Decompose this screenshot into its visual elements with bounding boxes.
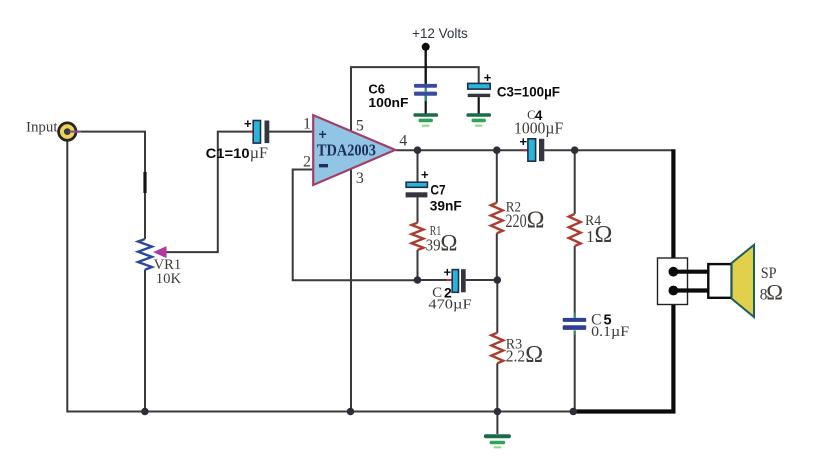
capacitor C6 (414, 84, 437, 101)
wire: C2 right plate to R2/R3 node (466, 279, 498, 281)
svg-text:2: 2 (303, 154, 311, 171)
wire: pin 5 up and top rail to C3 (351, 67, 479, 131)
junction node: output/C7 (414, 146, 422, 154)
wire: C7 branch drop (417, 150, 419, 182)
potentiometer VR1 (138, 239, 152, 270)
wire: thick overlap segment on VR1 line (143, 172, 146, 193)
node: speaker - terminal (669, 286, 679, 296)
resistor R2 (491, 203, 503, 234)
wire: C6 bottom to ground (425, 96, 427, 114)
svg-text:C3=100µF: C3=100µF (497, 83, 561, 99)
svg-text:+: + (444, 265, 452, 280)
wire: C7 to R1 (417, 197, 419, 222)
resistor R4 (569, 214, 581, 246)
svg-text:39nF: 39nF (430, 199, 462, 214)
wire: C5 bottom to ground rail (574, 330, 576, 411)
svg-text:1: 1 (586, 227, 595, 246)
junction node: C2/R2/R3 (494, 276, 502, 284)
wire: R4 branch top (574, 150, 576, 214)
junction node: rail/pin3 (347, 408, 355, 416)
speaker terminal block (658, 258, 688, 305)
svg-text:+12 Volts: +12 Volts (412, 25, 468, 41)
wire: R2 bottom to node (496, 233, 498, 280)
wire: C1 to pin 1 (269, 131, 314, 133)
wire: purple stub right of jack (71, 131, 81, 133)
input jack (59, 123, 76, 140)
svg-text:Ω: Ω (440, 231, 457, 256)
wire: input jack to VR1 top (right then down) (74, 132, 145, 239)
capacitor C7 (406, 167, 429, 197)
wire: output rail from op-amp tip to C4 (396, 149, 529, 151)
speaker SP driver (708, 264, 731, 298)
wire: C4 right plate to speaker corner (544, 149, 672, 151)
ground (main, below R3) (484, 434, 511, 448)
svg-text:1000µF: 1000µF (514, 119, 563, 138)
svg-text:0.1µF: 0.1µF (591, 324, 629, 340)
ground (C6) (413, 113, 438, 127)
svg-text:C7: C7 (430, 181, 445, 197)
wire: C3 bottom to ground (478, 97, 480, 113)
resistor R3 (491, 333, 503, 364)
ground (C3) (466, 113, 491, 127)
wire: C2 node to C2 left plate (418, 279, 453, 281)
svg-text:Ω: Ω (525, 342, 543, 368)
capacitor C3 (468, 70, 492, 97)
capacitor C2 (444, 265, 466, 293)
svg-text:Ω: Ω (766, 280, 783, 305)
junction node: rail/R3/ground (494, 408, 502, 416)
junction node: output/R4 (571, 146, 579, 154)
wire: terminal + to driver (673, 270, 709, 274)
svg-text:+: + (244, 116, 252, 131)
svg-text:TDA2003: TDA2003 (317, 140, 376, 159)
wire: R1 bottom to C2 node (417, 250, 419, 280)
junction node: rail/C5/thick return (570, 408, 578, 416)
wire: R3 bottom to ground rail (496, 363, 498, 411)
svg-text:+: + (421, 167, 429, 182)
svg-text:220: 220 (506, 211, 527, 232)
svg-text:+: + (484, 70, 492, 85)
wire: R4 bottom to C5 (574, 246, 576, 318)
wire: VR1 wiper to C1 (right, up, right) (166, 132, 254, 253)
wire: thick ground return from rail to speaker - terminal (573, 291, 673, 412)
svg-text:10K: 10K (156, 271, 182, 287)
wire: ground stub below rail (496, 412, 498, 435)
speaker SP cone (732, 245, 754, 317)
wire: thick drop to speaker + terminal (671, 149, 675, 271)
wire: VR1 bottom to ground rail (144, 270, 146, 412)
capacitor C4 (520, 134, 545, 161)
VR1 wiper arrow (153, 246, 166, 258)
junction node: rail/VR1 (141, 408, 149, 416)
capacitor C5 (563, 313, 587, 335)
wire: +12V drop to C6 (425, 47, 427, 84)
svg-text:Ω: Ω (527, 207, 545, 233)
wire: terminal - to driver (673, 288, 709, 292)
svg-text:Input: Input (26, 120, 58, 136)
wire: pin 3 down to ground rail (350, 169, 352, 412)
svg-text:5: 5 (356, 117, 364, 134)
junction node: R1/C2/feedback (414, 276, 422, 284)
svg-text:1: 1 (303, 116, 311, 133)
svg-text:µF: µF (250, 145, 268, 162)
op-amp - input mark (319, 164, 328, 167)
svg-text:3: 3 (356, 170, 364, 187)
wire: R2 branch top (496, 150, 498, 203)
capacitor C1 (244, 116, 269, 143)
svg-text:470µF: 470µF (428, 298, 471, 313)
wire: node to R3 top (496, 280, 498, 333)
junction node: output/R2 (493, 146, 501, 154)
op-amp U1 TDA2003 (313, 115, 395, 185)
svg-text:39: 39 (426, 235, 441, 254)
svg-text:100nF: 100nF (368, 95, 408, 110)
wire: pin 2 feedback (left, down, right to C2 node) (293, 170, 418, 281)
resistor R1 (412, 223, 424, 250)
wire: jack down + bottom ground rail (67, 139, 573, 412)
svg-text:C1=10: C1=10 (206, 145, 250, 161)
svg-text:2.2: 2.2 (506, 347, 525, 366)
svg-text:4: 4 (399, 133, 407, 150)
node: speaker + terminal (669, 267, 679, 277)
svg-text:Ω: Ω (595, 222, 613, 248)
node: +12V terminal dot (422, 43, 430, 51)
